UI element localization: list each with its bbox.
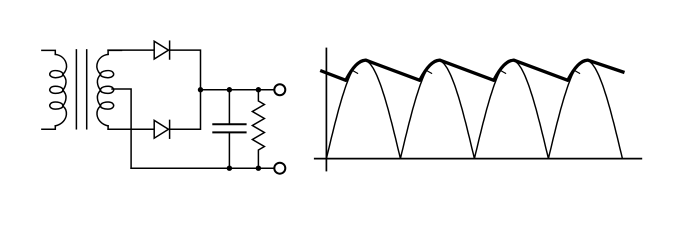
diode D2 — [154, 120, 169, 138]
capacitor C1 — [213, 124, 245, 132]
wire D1 cathode to node A — [170, 50, 201, 90]
wire capacitor C1 bottom lead — [228, 132, 230, 168]
output terminal minus — [274, 163, 285, 174]
wire secondary top lead to diode D1 anode — [108, 49, 154, 51]
junction dot resistor top — [256, 87, 261, 92]
wire top rail — [201, 89, 275, 91]
pen overshoot ticks on ripple rise — [353, 71, 580, 74]
wire D2 cathode to node A — [170, 90, 201, 130]
transformer T1 core — [76, 50, 86, 129]
node A junction dot — [198, 87, 203, 92]
wire center tap to bottom rail — [112, 89, 131, 168]
diode D1 — [154, 41, 169, 59]
waveform x-axis — [314, 158, 642, 160]
transformer T1 primary winding — [42, 50, 67, 129]
junction dot capacitor top — [227, 87, 232, 92]
junction dot resistor bottom — [256, 166, 261, 171]
output terminal plus — [274, 84, 285, 95]
wire secondary bottom lead to diode D2 anode — [108, 128, 154, 130]
rectified sine humps — [326, 60, 622, 159]
transformer T1 secondary winding — [97, 50, 122, 129]
waveform y-axis — [325, 48, 327, 172]
wire bottom rail — [131, 167, 274, 169]
wire capacitor C1 top lead — [228, 90, 230, 124]
filtered ripple output waveform — [320, 60, 624, 80]
resistor R1 — [252, 90, 264, 168]
junction dot capacitor bottom — [227, 166, 232, 171]
